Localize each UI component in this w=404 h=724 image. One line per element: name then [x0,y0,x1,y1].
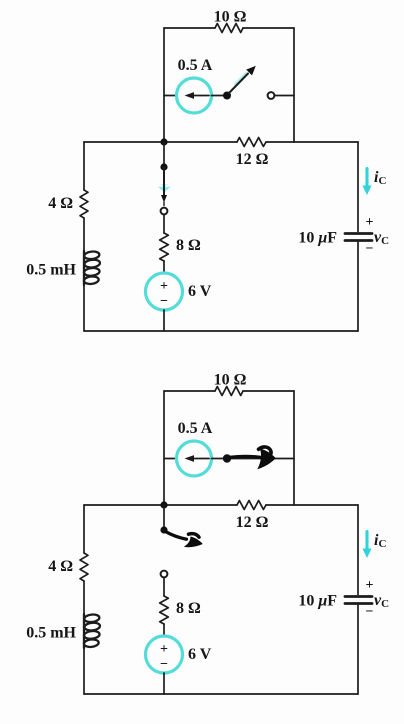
svg-text:−: − [366,242,374,257]
current arrow iC (cyan) [362,169,371,196]
svg-text:0.5 mH: 0.5 mH [26,625,76,642]
svg-text:+: + [160,279,168,294]
svg-text:vC: vC [374,229,389,247]
wire: left branch lower [83,285,85,331]
current source arrow [185,455,210,462]
inductor 0.5 mH [84,614,101,648]
wire: from current source to switch pivot [212,95,225,97]
wire: right branch lower [357,241,359,332]
switch S1 pivot dot [223,454,231,462]
wire: inner loop top-left segment [164,27,215,29]
resistor 4 ohm [80,190,88,218]
wire: inner loop right vertical [293,28,295,142]
wire: bottom bus [84,693,358,695]
wire: inner loop top-left segment [164,390,215,392]
wire: middle branch junction to switch pivot [163,505,165,530]
wire: right branch upper [357,142,359,232]
wire: bus right of 12 ohm [266,141,358,143]
svg-text:+: + [366,215,374,230]
wire: main horizontal bus [84,504,237,506]
resistor 8 ohm [160,596,169,624]
resistor 10 ohm [215,24,243,33]
svg-text:0.5 A: 0.5 A [178,420,213,437]
wire: terminal to 8 ohm [163,215,165,234]
svg-text:−: − [160,294,168,309]
switch S2 bold open arrow [166,532,203,547]
switch S1 motion cyan tinge [236,74,246,84]
wire: left branch middle [83,218,85,251]
node junction dot at bus [160,501,167,508]
wire: terminal to 8 ohm [163,578,165,597]
switch S2 pivot dot [160,526,167,533]
switch S1 bold closed arrow [231,447,276,469]
wire: bus right of 12 ohm [266,504,358,506]
svg-text:6 V: 6 V [188,646,212,663]
resistor 8 ohm [160,233,169,261]
svg-text:0.5 mH: 0.5 mH [26,262,76,279]
current source I1 0.5 A [177,78,212,113]
resistor 10 ohm [215,387,243,396]
wire: inner loop right vertical [293,391,295,505]
resistor 12 ohm [237,138,266,147]
switch S2 blade arrowhead [161,195,167,203]
switch S1 open terminal [268,92,275,99]
wire: right branch lower [357,604,359,695]
wire: left branch middle [83,581,85,614]
svg-text:+: + [366,578,374,593]
svg-text:0.5 A: 0.5 A [178,57,213,74]
svg-text:10 Ω: 10 Ω [214,372,247,389]
svg-text:vC: vC [374,592,389,610]
wire: from current source to right vertical (switch closed) [212,458,295,460]
wire: 8 ohm to source [163,261,165,273]
svg-text:10 Ω: 10 Ω [214,9,247,26]
wire: middle horizontal left stub [164,458,177,460]
wire: open terminal to right vertical [275,95,295,97]
wire: middle horizontal left stub [164,95,177,97]
svg-text:6 V: 6 V [188,283,212,300]
switch S1 blade (open, angled up) [229,74,248,94]
svg-text:−: − [160,657,168,672]
svg-text:−: − [366,605,374,620]
svg-text:iC: iC [374,532,386,550]
svg-text:8 Ω: 8 Ω [176,237,201,254]
voltage source V1 6V circle [146,273,183,310]
wire: main horizontal bus y=142 [84,141,237,143]
wire: left branch lower [83,648,85,694]
wire: inner loop left vertical [163,391,165,505]
svg-text:10 μF: 10 μF [298,593,337,610]
capacitor C1 plates [345,597,372,604]
wire: source to bottom bus [163,310,165,331]
current source arrow [185,92,210,99]
voltage source V1 6V circle [146,636,183,673]
switch S2 pivot dot [160,163,167,170]
current arrow iC (cyan) [362,532,371,559]
wire: bottom bus [84,330,358,332]
svg-text:4 Ω: 4 Ω [48,558,73,575]
wire: 8 ohm to source [163,624,165,636]
svg-text:8 Ω: 8 Ω [176,600,201,617]
resistor 4 ohm [80,553,88,581]
switch S2 motion cyan tinge [158,187,171,193]
inductor 0.5 mH [84,251,101,285]
svg-text:iC: iC [374,169,386,187]
svg-text:12 Ω: 12 Ω [236,514,269,531]
switch S1 pivot dot [223,92,231,100]
current source I1 0.5 A [177,441,212,476]
wire: source to bottom bus [163,673,165,694]
resistor 12 ohm [237,501,266,510]
wire: inner loop top-right segment [243,27,294,29]
wire: left branch upper [83,142,85,190]
wire: inner loop left vertical [163,28,165,142]
node junction dot at bus [160,138,167,145]
svg-text:12 Ω: 12 Ω [236,151,269,168]
wire: inner loop top-right segment [243,390,294,392]
switch S2 open terminal [161,571,168,578]
wire: left branch upper [83,505,85,553]
wire: middle branch junction to switch pivot [163,142,165,167]
svg-text:+: + [160,642,168,657]
svg-text:10 μF: 10 μF [298,230,337,247]
capacitor C1 plates [345,234,372,241]
wire: right branch upper [357,505,359,595]
switch S2 blade (closed, vertical) [163,167,165,198]
svg-text:4 Ω: 4 Ω [48,195,73,212]
switch S2 open terminal [161,208,168,215]
switch S1 blade arrowhead [246,66,256,76]
